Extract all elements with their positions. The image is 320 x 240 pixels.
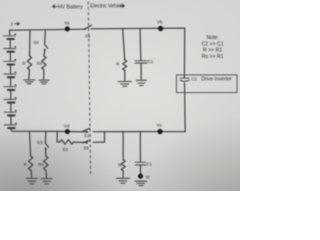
svg-text:HV Battery: HV Battery <box>58 4 83 10</box>
svg-text:S2: S2 <box>84 133 90 138</box>
svg-text:C1: C1 <box>148 59 154 64</box>
svg-text:Rs >> R1: Rs >> R1 <box>202 54 224 60</box>
svg-text:R1: R1 <box>63 147 69 152</box>
svg-text:Note:: Note: <box>206 35 218 41</box>
svg-text:C2 >> C1: C2 >> C1 <box>202 41 224 47</box>
svg-text:S1: S1 <box>85 34 91 39</box>
svg-text:Rs: Rs <box>38 162 44 167</box>
svg-text:Rs: Rs <box>37 61 43 66</box>
svg-text:Electric Vehicle: Electric Vehicle <box>90 4 124 10</box>
svg-text:Vb: Vb <box>157 19 163 24</box>
svg-text:I: I <box>10 22 14 28</box>
svg-text:S4: S4 <box>33 40 39 45</box>
svg-text:C1: C1 <box>146 162 152 167</box>
svg-text:R: R <box>118 162 121 167</box>
svg-text:Va: Va <box>64 20 70 25</box>
svg-text:Drive Inverter: Drive Inverter <box>201 77 232 83</box>
svg-text:C2: C2 <box>191 76 197 81</box>
svg-text:R: R <box>24 162 27 167</box>
svg-text:R: R <box>116 61 119 66</box>
svg-text:Vr: Vr <box>146 175 151 180</box>
svg-text:Vd: Vd <box>64 123 70 128</box>
svg-text:R >> R1: R >> R1 <box>203 48 222 54</box>
svg-text:S3: S3 <box>37 140 43 145</box>
svg-text:R: R <box>22 61 25 66</box>
svg-text:Vc: Vc <box>157 123 163 128</box>
svg-text:S5: S5 <box>83 145 89 150</box>
